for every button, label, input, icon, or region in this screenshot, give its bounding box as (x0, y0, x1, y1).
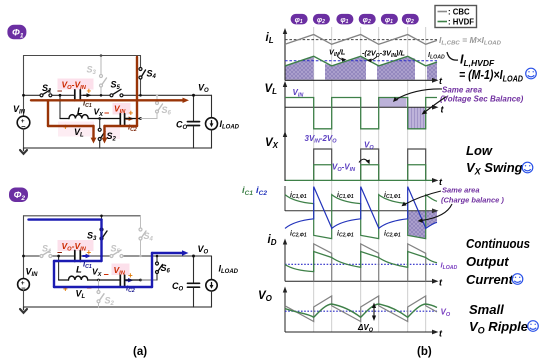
svg-text:Output: Output (466, 254, 509, 269)
switch S2 (open, inactive) (98, 280, 100, 291)
phi2 badge (9, 188, 28, 203)
wire: C2 to S4 node (125, 118, 141, 120)
svg-text:L: L (76, 265, 82, 276)
iC1 green waveform (285, 195, 437, 239)
svg-text:iC1,Φ1: iC1,Φ1 (337, 192, 354, 200)
maroon current path phase1 (31, 57, 184, 140)
capacitor C2 (119, 114, 121, 125)
switch S6 (closed) (156, 256, 158, 262)
VL purple fills (379, 98, 407, 107)
switch S2 (closed) (99, 119, 101, 129)
switch S3 (closed) (101, 216, 103, 228)
svg-text:iC2,Φ1: iC2,Φ1 (384, 231, 401, 239)
svg-text:(b): (b) (417, 346, 432, 358)
wire: main line segments (24, 94, 212, 96)
svg-text:(Charge balance ): (Charge balance ) (441, 196, 504, 205)
CBC gray VO ripple (285, 296, 437, 322)
svg-text:Current: Current (466, 272, 514, 287)
switch S4 (open, inactive) (140, 216, 142, 228)
wire: bottom rail (24, 147, 212, 149)
load current source ILOAD (211, 95, 213, 117)
svg-text:iC1,Φ1: iC1,Φ1 (290, 192, 307, 200)
IC2 current arrow (blue) (126, 279, 130, 281)
HVDF VL square wave (285, 98, 437, 129)
svg-text:(a): (a) (133, 346, 147, 358)
svg-text:Same area: Same area (442, 186, 480, 195)
CBC gray iD pulses (314, 244, 426, 281)
svg-text:-(2VO-3VIN)/L: -(2VO-3VIN)/L (362, 49, 406, 60)
source VIN (17, 116, 30, 129)
svg-text:: HVDF: : HVDF (448, 18, 474, 27)
svg-text:+: + (129, 109, 134, 118)
VX axis (285, 179, 435, 181)
CBC gray triangle wave (285, 35, 437, 45)
iL axis (285, 79, 435, 81)
HVDF green triangle wave (285, 56, 437, 66)
iD axis (285, 280, 435, 282)
capacitor C1 (74, 90, 76, 101)
IC1 current arrow (blue) (83, 255, 87, 257)
svg-text:−: − (104, 270, 109, 280)
svg-text:VX Swing: VX Swing (466, 160, 523, 177)
wire: C2 to node (125, 279, 141, 281)
zero line (285, 210, 435, 212)
wire: bottom rail (24, 306, 212, 308)
smiley 4 (528, 321, 539, 332)
svg-text:−: − (104, 108, 109, 118)
svg-text:Low: Low (466, 143, 493, 158)
switch S1 (closed) (40, 94, 43, 97)
svg-text:Same area: Same area (442, 86, 483, 95)
svg-text:iC2,Φ1: iC2,Φ1 (337, 231, 354, 239)
capacitor CO (193, 95, 195, 120)
svg-text:(Voltage Sec Balance): (Voltage Sec Balance) (440, 95, 524, 104)
CBC VX pulses (to VO) (314, 149, 426, 180)
phase boundary gridlines (314, 27, 426, 332)
svg-text:iC1,Φ1: iC1,Φ1 (384, 192, 401, 200)
capacitor C1 (74, 251, 76, 262)
node VX (97, 279, 100, 282)
smiley 3 (512, 274, 523, 285)
wire: L branch down (59, 95, 61, 118)
wire: main line segments (24, 255, 212, 257)
HVDF green VO ripple (285, 304, 437, 317)
svg-text:Continuous: Continuous (466, 236, 530, 251)
HVDF green iD (285, 252, 437, 272)
wire: left rail upper (23, 216, 25, 279)
wire: node to S6 (inactive) (141, 118, 158, 120)
cycle labels (290, 192, 401, 239)
svg-text:Small: Small (469, 302, 504, 317)
IC1 current arrow (84, 94, 89, 96)
svg-text:iC2,Φ1: iC2,Φ1 (290, 231, 307, 239)
switch S4 (closed) (140, 56, 142, 68)
phi1 badge (7, 25, 26, 40)
source VIN (18, 279, 30, 291)
ILOAD dashed level (285, 60, 437, 62)
smiley 1 (526, 68, 537, 79)
node dots (22, 255, 25, 258)
wire: left rail lower (23, 129, 25, 148)
capacitor CO (193, 256, 195, 282)
iL purple area fills (285, 56, 437, 79)
node dots main line (22, 94, 25, 97)
highlight pink washes (58, 79, 94, 90)
IL,CBC dashed level (285, 39, 437, 41)
HVDF VX pulses (to VO-VIN) (314, 165, 426, 181)
wire: node to S6 (141, 279, 158, 281)
wire: left rail upper (23, 56, 25, 117)
node VX (98, 117, 101, 120)
blue current path phase2 (29, 220, 184, 287)
node VO (192, 94, 195, 97)
VO axis (285, 331, 435, 333)
switch S3 (open, inactive) (100, 56, 102, 75)
wire to C2 (100, 118, 120, 120)
IC2 current arrow (maroon) (126, 118, 130, 120)
inductor L (60, 118, 69, 120)
wire to C2 (99, 279, 121, 281)
smiley 2 (522, 162, 533, 173)
inductor L (59, 279, 69, 281)
wire: top rail (24, 215, 141, 217)
VO dotted level (285, 310, 437, 312)
ILOAD dotted (285, 263, 437, 265)
phase badges row (291, 14, 419, 25)
VL zero axis (285, 106, 435, 108)
legend box CBC/HVDF (435, 6, 477, 28)
highlight pink washes (58, 240, 94, 251)
switch S5 (closed) (110, 94, 113, 97)
switch S1 (open, inactive) (40, 255, 43, 258)
charge-balance purple fills (408, 211, 426, 238)
svg-text:L: L (77, 106, 83, 117)
capacitor C2 (119, 275, 121, 286)
wire: top rail (24, 55, 141, 57)
load current source ILOAD (211, 256, 213, 280)
switch S6 (open, inactive) (156, 95, 158, 101)
iC2 blue waveform (285, 187, 437, 229)
wire: L branch down (58, 256, 60, 280)
wire: left rail lower (23, 290, 25, 307)
switch S5 (open, inactive) (110, 255, 113, 258)
svg-text:: CBC: : CBC (448, 8, 470, 17)
ground (23, 148, 25, 151)
delta VO arrow (373, 305, 375, 319)
node VO (192, 255, 195, 258)
ground (23, 307, 25, 310)
